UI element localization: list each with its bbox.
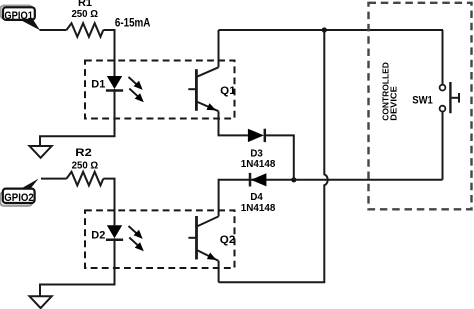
LED D1 (106, 76, 123, 91)
svg-text:R2: R2 (75, 147, 92, 159)
wire GPIO2 to R2 (41, 178, 67, 180)
svg-text:D3: D3 (250, 147, 263, 159)
svg-text:250 Ω: 250 Ω (72, 159, 99, 171)
resistor R1 (67, 23, 104, 37)
wire Q1 emitter to D3 anode (219, 111, 248, 135)
wire SW1 to net B (442, 112, 444, 180)
svg-text:Q1: Q1 (220, 85, 236, 97)
wire net B horizontal (SW1 to Q2 collector) (219, 180, 443, 217)
optocoupler 2 dashed body (85, 210, 235, 268)
svg-text:6-15mA: 6-15mA (115, 18, 150, 30)
controlled device dashed enclosure (369, 3, 472, 210)
optocoupler 1 light arrows (129, 77, 144, 102)
wire node A down with hop over net B, to bottom rail (219, 30, 328, 282)
phototransistor Q2 (188, 216, 218, 261)
junction node A (322, 27, 327, 32)
optocoupler 1 dashed body (85, 61, 235, 119)
net label GPIO2 (0, 179, 38, 206)
svg-text:D1: D1 (91, 78, 105, 90)
svg-text:GPIO1: GPIO1 (4, 10, 33, 22)
wire top rail (node A) (219, 29, 444, 31)
diode D4 (250, 173, 266, 187)
wire D3 cathode to junction node B (265, 135, 294, 179)
wire R2 to D2 anode (103, 179, 114, 226)
wire Q1 collector up to top rail (218, 30, 220, 67)
net label GPIO1 (0, 6, 40, 31)
wire top rail down to SW1 (442, 30, 444, 85)
resistor R2 (67, 172, 104, 186)
svg-text:D4: D4 (250, 191, 263, 203)
svg-text:1N4148: 1N4148 (241, 159, 276, 170)
svg-text:DEVICE: DEVICE (388, 86, 398, 121)
junction node B (diode junction) (291, 177, 296, 182)
diode D3 (248, 129, 265, 142)
wire Q2 emitter down to bottom rail (218, 261, 220, 282)
phototransistor Q1 (188, 67, 218, 111)
wire R1 to D1 anode (103, 30, 114, 76)
svg-text:GPIO2: GPIO2 (4, 192, 34, 204)
LED D2 (106, 225, 123, 240)
svg-text:Q2: Q2 (220, 234, 236, 246)
pushbutton SW1 (440, 82, 459, 113)
wire D2 cathode to ground 2 (40, 238, 115, 296)
svg-text:250 Ω: 250 Ω (71, 8, 98, 20)
wire D1 cathode to ground 1 (40, 89, 115, 146)
svg-text:1N4148: 1N4148 (241, 203, 276, 214)
wire GPIO1 to R1 (40, 29, 67, 31)
ground 1 (30, 146, 52, 158)
svg-text:SW1: SW1 (412, 95, 433, 107)
ground 2 (30, 296, 52, 308)
optocoupler 2 light arrows (129, 226, 144, 251)
svg-text:D2: D2 (91, 229, 105, 241)
